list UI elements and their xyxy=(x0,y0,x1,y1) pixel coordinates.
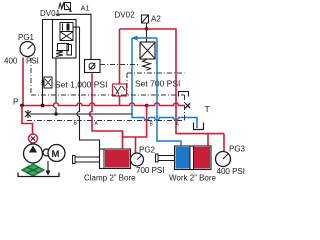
wire red pump riser xyxy=(22,106,33,134)
wire red clamp cap port xyxy=(122,131,124,150)
coupling xyxy=(43,149,50,156)
valve DV01 pilot spring xyxy=(59,3,65,9)
wire DV01 left supply loop xyxy=(43,20,53,106)
pressure gauge PG2 xyxy=(131,153,144,166)
reservoir xyxy=(18,173,59,177)
wire red DV01 side branch down xyxy=(119,29,121,84)
svg-text:400 PSI: 400 PSI xyxy=(217,167,245,176)
tank symbol right xyxy=(194,123,204,130)
wire red P bus xyxy=(22,103,185,106)
svg-text:A2: A2 xyxy=(151,15,161,24)
svg-text:PSI: PSI xyxy=(26,57,39,66)
wire suction xyxy=(32,163,34,165)
plug X on P bus end xyxy=(185,103,190,108)
wire A1 line xyxy=(56,14,91,59)
svg-text:M: M xyxy=(52,149,60,160)
bracket vent xyxy=(179,92,189,97)
svg-text:PG2: PG2 xyxy=(139,146,156,155)
svg-text:Clamp 2” Bore: Clamp 2” Bore xyxy=(84,174,136,183)
valve DV01 envelope xyxy=(53,20,77,59)
wire red PG3 stem xyxy=(223,134,225,152)
valve DV01 pilot box xyxy=(65,3,71,10)
dash-dot enclosure DV02 xyxy=(127,73,185,121)
wire blue DV02 right rail to work rod end xyxy=(157,38,181,147)
svg-text:400: 400 xyxy=(4,57,18,66)
svg-text:PG1: PG1 xyxy=(18,33,35,42)
pump xyxy=(24,144,43,163)
svg-text:Set 1,000 PSI: Set 1,000 PSI xyxy=(55,80,107,90)
valve DV01 position box open xyxy=(60,23,73,32)
wire DV01 work port stub xyxy=(73,26,80,28)
wire red clamp feed from P bus xyxy=(123,106,147,138)
wire blue DV02 left rail to tank bus xyxy=(132,38,197,128)
wire DV02 pilot stub xyxy=(146,23,148,42)
valve DV01 position box blocked xyxy=(60,32,73,41)
cylinder work xyxy=(156,154,159,162)
wire clamp rod-end line xyxy=(77,27,100,149)
check valve pump xyxy=(29,134,38,143)
wire red work cap port xyxy=(207,134,209,147)
drain arrow xyxy=(47,161,49,171)
svg-text:Work 2” Bore: Work 2” Bore xyxy=(169,174,217,183)
valve DV01 spring xyxy=(56,51,63,57)
dash-dot drain bus xyxy=(27,120,185,122)
valve DV02 spring xyxy=(143,60,151,71)
svg-text:DV01: DV01 xyxy=(40,9,61,18)
svg-text:700 PSI: 700 PSI xyxy=(136,166,164,175)
svg-text:DV02: DV02 xyxy=(115,11,136,20)
junction dot DV01 supply xyxy=(41,104,45,108)
pressure gauge PG1 xyxy=(20,42,35,57)
wire red PG2 stem xyxy=(135,137,137,153)
check valve box xyxy=(85,60,101,73)
wire black T bus xyxy=(30,113,132,115)
svg-text:T: T xyxy=(205,104,210,114)
motor M xyxy=(48,145,65,162)
valve DV01 pilot arrow xyxy=(66,5,72,12)
valve DV02 pilot box xyxy=(142,15,149,23)
svg-text:P: P xyxy=(13,98,18,107)
junction dot clamp feed xyxy=(145,104,149,108)
valve DV02 blue outlet loop xyxy=(132,37,157,39)
svg-text:A1: A1 xyxy=(81,4,90,13)
small red relief component xyxy=(113,84,127,96)
wire red PG1 stem down to P bus xyxy=(22,58,24,106)
junction dot P start xyxy=(20,104,24,108)
valve DV02 body xyxy=(140,42,155,59)
dash-dot pilot line xyxy=(100,64,140,66)
pressure gauge PG3 xyxy=(216,152,231,167)
junction dot T drain xyxy=(54,112,58,116)
cylinder clamp xyxy=(73,156,76,164)
plug X on T bus end xyxy=(25,110,31,118)
dash-dot enclosure DV01 xyxy=(31,58,185,95)
junction dot A2 xyxy=(145,27,149,31)
svg-text:PG3: PG3 xyxy=(229,145,246,154)
valve DV01 sub box xyxy=(58,44,69,51)
tiny pilot valve left xyxy=(44,77,52,88)
wire DV01 drain to T bus xyxy=(54,58,57,115)
wire red top line to DV02 and work branch xyxy=(120,29,225,134)
strainer xyxy=(22,164,44,176)
wire red clamp feed from check valve xyxy=(90,74,123,138)
